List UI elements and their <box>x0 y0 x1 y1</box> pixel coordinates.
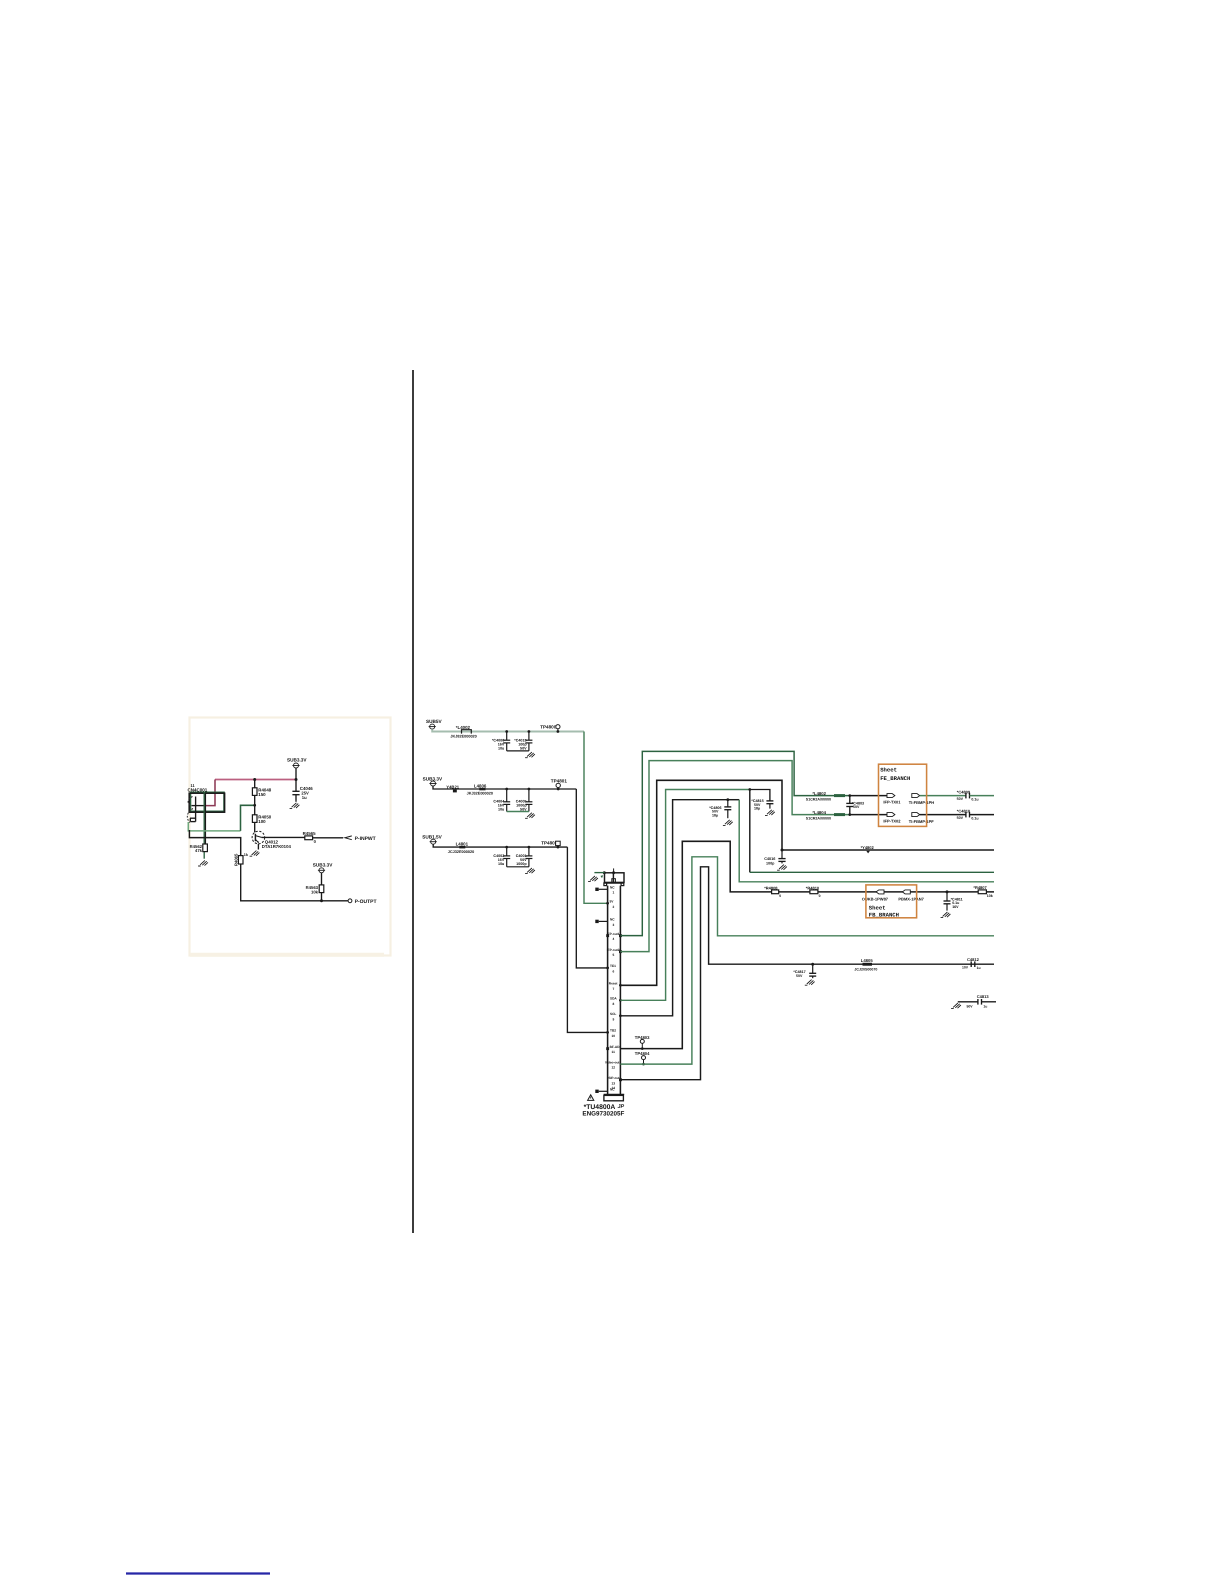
ground under C4806 <box>723 820 733 826</box>
capacitor C4803 (between rows) <box>846 796 864 815</box>
label C4004 <box>493 799 505 811</box>
svg-text:Sheet: Sheet <box>880 767 897 774</box>
power symbol SUB3.3V (second) <box>313 862 333 873</box>
svg-text:TE1: TE1 <box>610 964 616 968</box>
ground under C4817 <box>805 980 815 986</box>
svg-text:*Y4802: *Y4802 <box>861 845 875 850</box>
svg-text:R4565: R4565 <box>303 831 316 836</box>
node junction green at divider <box>253 804 256 807</box>
capacitor C4004 <box>503 789 510 812</box>
svg-text:10: 10 <box>612 1034 616 1038</box>
port IFP-TX02 <box>883 813 901 824</box>
pin 2 label <box>606 900 614 909</box>
svg-text:150: 150 <box>258 792 266 797</box>
svg-text:50V: 50V <box>853 805 860 809</box>
pin 5 label <box>607 948 622 957</box>
resistor R4563 <box>306 885 324 901</box>
svg-text:C4813: C4813 <box>977 994 990 999</box>
pin 9 label <box>610 1012 622 1021</box>
svg-text:10u: 10u <box>498 747 505 751</box>
svg-text:9: 9 <box>613 1017 615 1021</box>
resistor R4807 <box>973 885 992 898</box>
connector CN4800 body rails <box>608 886 621 1095</box>
wire pin12 net Video routing <box>620 857 994 1064</box>
svg-text:*C4809: *C4809 <box>957 789 971 794</box>
svg-text:*C4810: *C4810 <box>957 808 971 813</box>
ground under C4811 <box>941 912 951 918</box>
node junction top cap mid <box>612 871 615 874</box>
resistor R4810 <box>806 885 821 898</box>
wire coupler pin (green) down <box>203 792 205 858</box>
wire R4065 to output row <box>241 864 349 901</box>
node junction C4811 <box>946 890 949 893</box>
photocoupler internal pins <box>190 797 204 822</box>
wire SUB5V rail (pale) <box>432 729 584 731</box>
svg-text:JKJ32E000020: JKJ32E000020 <box>467 792 493 796</box>
pin 4 label <box>606 932 622 941</box>
wire pin4 net IFP-TX01 routing <box>620 751 849 935</box>
svg-text:PBMX-1PAN7: PBMX-1PAN7 <box>898 896 924 901</box>
svg-text:*L4002: *L4002 <box>456 725 471 730</box>
svg-text:*L4802: *L4802 <box>812 791 826 796</box>
node junction C4016 <box>781 849 784 852</box>
connector CN4800 bottom cap <box>604 1094 625 1100</box>
svg-text:L4801: L4801 <box>456 841 469 846</box>
svg-text:TP4801: TP4801 <box>551 779 568 784</box>
pin 3 NC stub <box>595 918 615 927</box>
pin 7 label <box>609 982 622 991</box>
inductor L4802 <box>806 791 845 802</box>
svg-text:10k: 10k <box>987 894 993 898</box>
node junction C4001 tap <box>528 846 531 849</box>
capacitor C4817 <box>793 964 816 978</box>
label C4001 <box>516 854 528 866</box>
svg-text:Video-out: Video-out <box>605 1060 621 1064</box>
svg-text:BF-AD: BF-AD <box>610 1045 621 1049</box>
capacitor C4806 <box>709 800 731 819</box>
svg-text:Sheet: Sheet <box>869 905 886 912</box>
wire cap tie row A <box>507 750 529 752</box>
svg-text:ENG9730205F: ENG9730205F <box>582 1110 624 1117</box>
label C4005 <box>516 799 528 811</box>
svg-text:1u: 1u <box>983 1005 987 1009</box>
port IFP-TX01 <box>883 794 901 805</box>
wire SUB5V drop to pin 2 <box>584 732 608 904</box>
capacitor C4815 <box>751 799 773 811</box>
port OUKB-1PW87 <box>862 890 889 902</box>
svg-text:1u: 1u <box>302 795 307 800</box>
capacitor C4811 <box>944 892 963 911</box>
wire pin9 net SCL routing <box>620 800 727 1016</box>
node junction top cap left <box>603 871 606 874</box>
svg-text:SDA: SDA <box>610 997 617 1001</box>
wire power to R4563 <box>321 873 323 885</box>
pin 1 NC stub <box>595 886 615 895</box>
svg-text:10u: 10u <box>498 862 505 866</box>
wire row1 end <box>970 795 995 797</box>
svg-text:1u: 1u <box>977 966 981 970</box>
inductor L4801 <box>448 841 474 854</box>
node junction SDA branch <box>748 788 751 791</box>
wire pink supply net <box>215 779 296 781</box>
node junction at R4048 top <box>253 778 256 781</box>
label C4006 <box>492 738 505 750</box>
svg-text:47k: 47k <box>195 848 203 853</box>
footer blue line <box>126 1572 270 1574</box>
capacitor C4001 <box>525 847 532 867</box>
svg-text:P-OUTPT: P-OUTPT <box>355 899 377 905</box>
svg-text:L4806: L4806 <box>474 783 487 788</box>
wire to P-INPUT arrow <box>313 837 344 839</box>
svg-text:*R4808: *R4808 <box>764 885 778 890</box>
port TI-FBMP-1PH <box>909 794 934 805</box>
ground row C <box>525 868 535 874</box>
node junction C4005 tap <box>528 788 531 791</box>
svg-text:12: 12 <box>612 1066 616 1070</box>
test point TP4804 <box>635 1051 650 1065</box>
warning triangle <box>588 1095 594 1101</box>
sheet box FB_BRANCH (bottom) <box>866 885 917 919</box>
node junction at C4046 top <box>295 778 298 781</box>
svg-text:NC: NC <box>610 886 615 890</box>
test point TP4801 <box>551 779 568 791</box>
wire SDA stub to C4815 <box>750 790 770 801</box>
svg-text:0.1u: 0.1u <box>971 797 978 801</box>
wire SCL to drop <box>728 799 739 801</box>
pin 13 label <box>608 1076 622 1085</box>
svg-text:4: 4 <box>613 937 615 941</box>
svg-text:8: 8 <box>613 1002 615 1006</box>
connector CN4800 top cap <box>605 868 625 882</box>
svg-text:10k: 10k <box>311 889 319 894</box>
net label Y4802 <box>861 845 875 854</box>
divider line between schematic zones <box>412 370 414 1233</box>
svg-text:5: 5 <box>613 953 615 957</box>
wire black lower net <box>189 830 240 856</box>
svg-text:JCJ20S00070: JCJ20S00070 <box>854 968 877 972</box>
wire row2 right of box <box>920 814 966 816</box>
wire row1 right of box <box>920 795 966 797</box>
capacitor C4810 (series) <box>957 808 979 820</box>
svg-text:SUB1.5V: SUB1.5V <box>422 834 442 839</box>
svg-text:18p: 18p <box>754 807 761 811</box>
svg-text:JCJ32E000020: JCJ32E000020 <box>448 850 474 854</box>
power symbol SUB1.5V (row C) <box>422 834 442 844</box>
svg-text:SIP-out: SIP-out <box>608 1076 620 1080</box>
svg-text:TB2: TB2 <box>610 1029 616 1033</box>
wire top cap to chassis ground <box>594 872 604 874</box>
node junction C4006 tap <box>505 730 508 733</box>
ground at connector top <box>588 876 598 882</box>
pin 11 label <box>606 1045 620 1054</box>
svg-text:11: 11 <box>612 1050 616 1054</box>
label CN4C001 <box>188 783 208 793</box>
label C4002 <box>493 854 505 866</box>
test point TP4800 <box>540 724 560 732</box>
test point TP4803 <box>635 1035 650 1050</box>
svg-text:50V: 50V <box>967 1004 974 1008</box>
node junction C4817 <box>811 963 814 966</box>
inductor L4804 <box>806 810 845 821</box>
capacitor C4006 <box>503 732 510 751</box>
wire green up to R chain <box>241 805 255 831</box>
photocoupler CN4C001 outer box (black) <box>189 793 224 812</box>
wire power stem to net <box>295 768 297 779</box>
photocoupler dashed arc lower <box>187 809 193 823</box>
wire C4813 fragment <box>958 1001 978 1003</box>
ground under C4815 <box>765 810 775 816</box>
capacitor C4812 (series) <box>962 957 981 970</box>
svg-text:10u: 10u <box>498 807 505 811</box>
wire C4813 end <box>982 1001 997 1003</box>
wire SUB3.3V drop to pin 6 <box>576 789 607 968</box>
svg-text:0.1u: 0.1u <box>971 816 978 820</box>
svg-text:Y4B21: Y4B21 <box>446 784 459 789</box>
resistor R4562 <box>190 844 208 853</box>
inductor L4805 <box>854 958 877 971</box>
wire coupler pin (black) down <box>204 793 206 844</box>
net arrow P-INPUT <box>345 836 376 842</box>
ground under R4562 <box>198 860 208 866</box>
svg-text:18p: 18p <box>712 813 719 817</box>
ground row A <box>525 752 535 758</box>
svg-text:14: 14 <box>612 1086 616 1090</box>
svg-text:0: 0 <box>779 894 781 898</box>
svg-text:IFP-TX02: IFP-TX02 <box>883 819 901 824</box>
wire row1 to port <box>850 795 887 797</box>
wire green feedback elbow <box>188 822 240 831</box>
wire SDA row <box>750 871 994 873</box>
label C4046 value <box>300 786 313 800</box>
connector CN4800 flange <box>604 883 625 886</box>
pin 10 label <box>606 1029 616 1038</box>
wire cap tie row B (green) <box>507 811 529 813</box>
inductor L4806 <box>467 783 493 795</box>
ground under C4016 <box>777 865 787 871</box>
ground under C4046 <box>290 803 300 809</box>
capacitor C4015 <box>525 732 532 751</box>
net port P-OUTPT <box>348 899 376 905</box>
ground row B <box>525 813 535 819</box>
resistor R4065 <box>233 853 249 866</box>
power symbol SUB3.3V (row B) <box>423 776 443 786</box>
svg-text:Reset: Reset <box>609 982 619 986</box>
svg-text:50V: 50V <box>957 797 964 801</box>
svg-text:*R4807: *R4807 <box>973 885 987 890</box>
wire pin7 net Reset routing <box>620 780 994 985</box>
svg-text:FE_BRANCH: FE_BRANCH <box>880 775 910 782</box>
svg-text:100: 100 <box>258 819 266 824</box>
pin 6 label <box>606 964 616 973</box>
svg-text:*L4804: *L4804 <box>812 810 826 815</box>
capacitor C4809 (series) <box>957 789 979 801</box>
photocoupler CN4C001 outer box (green) <box>191 792 225 811</box>
svg-text:SUB5V: SUB5V <box>426 719 443 724</box>
svg-text:JKJ82E000020: JKJ82E000020 <box>450 735 476 739</box>
port PBMX-1PAN7 <box>898 890 924 902</box>
wire pin5 net IFP-TX02 routing <box>620 761 849 952</box>
label C4015 <box>514 738 527 750</box>
svg-text:JP: JP <box>618 1104 625 1110</box>
pin 14 NC stub <box>595 1086 615 1093</box>
power symbol SUB3.3V (top of left schematic) <box>287 758 307 769</box>
capacitor C4002 <box>503 847 510 867</box>
test point TP4802 <box>541 841 560 849</box>
label TU4800A <box>582 1104 624 1118</box>
wire pin13 net SIP routing <box>620 867 994 1080</box>
resistor R4808 <box>764 885 781 898</box>
svg-text:TI-FBMP-1PF: TI-FBMP-1PF <box>909 819 934 824</box>
sheet box FE_BRANCH (top) <box>879 764 927 826</box>
wire pink vertical into coupler <box>204 780 216 806</box>
svg-text:FB_BRANCH: FB_BRANCH <box>869 912 899 919</box>
wire SCL drop <box>739 800 994 882</box>
svg-text:50V: 50V <box>957 816 964 820</box>
svg-text:TP4804: TP4804 <box>635 1051 650 1056</box>
power symbol SUB5V <box>426 719 443 729</box>
svg-text:R4065: R4065 <box>233 853 238 866</box>
inductor L4002 <box>450 725 476 739</box>
svg-text:6: 6 <box>613 970 615 974</box>
wire SUB1.5V drop to pin 10 <box>567 847 607 1032</box>
ground under Q4012 <box>250 851 260 857</box>
svg-text:2: 2 <box>613 905 615 909</box>
svg-text:C4016: C4016 <box>764 857 775 861</box>
node junction C4004 tap <box>505 788 508 791</box>
node junction C4015 tap <box>528 730 531 733</box>
ground C4813 fragment <box>951 1003 961 1009</box>
node junction C4002 tap <box>505 846 508 849</box>
svg-text:50V: 50V <box>796 974 803 978</box>
resistor R4048 <box>252 780 271 815</box>
svg-text:10V: 10V <box>962 966 969 970</box>
svg-text:C4812: C4812 <box>967 957 980 962</box>
svg-text:S1CR2A/00000: S1CR2A/00000 <box>806 816 831 820</box>
svg-text:7: 7 <box>613 987 615 991</box>
wire pin8 net SDA routing <box>620 790 749 1001</box>
transistor Q4012 <box>252 831 291 849</box>
svg-text:S1CR2A/00000: S1CR2A/00000 <box>806 797 831 801</box>
node junction C4803 bottom <box>848 813 851 816</box>
photocoupler dashed arc upper <box>188 797 192 806</box>
svg-text:L4805: L4805 <box>861 958 874 963</box>
chassis arrow <box>600 875 603 878</box>
capacitor C4016 <box>764 850 785 865</box>
wire row2 end <box>970 814 995 816</box>
svg-text:16V: 16V <box>952 905 959 909</box>
svg-text:SUB3.3V: SUB3.3V <box>287 758 307 763</box>
wire pin11 net BF-AD routing <box>620 841 994 1048</box>
node junction at R4563 bottom <box>320 899 323 902</box>
wire SDA drop <box>749 790 751 873</box>
pin 12 label <box>605 1060 621 1069</box>
wire SUB1.5V rail <box>433 844 567 847</box>
svg-text:TP4800: TP4800 <box>540 724 557 729</box>
svg-text:13: 13 <box>612 1081 616 1085</box>
svg-text:*R4810: *R4810 <box>806 885 820 890</box>
svg-text:50V: 50V <box>520 747 527 751</box>
svg-text:IFP-out2: IFP-out2 <box>607 948 620 952</box>
svg-text:1: 1 <box>613 891 615 895</box>
svg-text:1000p: 1000p <box>516 862 527 866</box>
svg-text:DTA1R7K0104: DTA1R7K0104 <box>262 844 292 849</box>
pin 8 label <box>610 997 622 1006</box>
svg-text:NC: NC <box>610 918 615 922</box>
faint tan border of left schematic block <box>190 718 391 956</box>
capacitor C4046 <box>292 780 299 802</box>
resistor R4050 <box>252 815 271 833</box>
svg-text:SCL: SCL <box>610 1012 616 1016</box>
capacitor C4005 <box>525 789 532 812</box>
wire cap tie row C <box>507 866 529 868</box>
svg-text:SUB3.3V: SUB3.3V <box>313 862 333 867</box>
wire SUB3.3V rail <box>433 786 576 789</box>
varistor Y4B21 <box>446 784 459 792</box>
node junction C4803 top <box>848 794 851 797</box>
capacitor C4813 (series) <box>967 994 990 1009</box>
port TI-FBMP-1PF <box>909 813 934 824</box>
wire collector output <box>262 836 305 838</box>
svg-text:3: 3 <box>613 923 615 927</box>
svg-text:TI-FBMP-1PH: TI-FBMP-1PH <box>909 800 934 805</box>
wire row2 to port <box>850 814 887 816</box>
svg-text:IFP-TX01: IFP-TX01 <box>883 800 901 805</box>
svg-text:100p: 100p <box>766 861 775 865</box>
resistor R4565 <box>303 831 317 844</box>
wire emitter to ground <box>257 844 259 850</box>
svg-text:0: 0 <box>819 894 821 898</box>
svg-text:P-INPWT: P-INPWT <box>355 836 376 842</box>
node junction SCL branch <box>726 798 729 801</box>
